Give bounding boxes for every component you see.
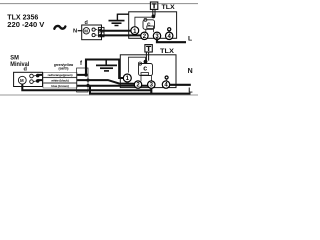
svg-text:L: L — [188, 36, 192, 43]
svg-text:220 -240 V: 220 -240 V — [7, 20, 44, 29]
svg-text:blue (brown): blue (brown) — [51, 84, 68, 88]
svg-text:red/orange(green): red/orange(green) — [48, 73, 73, 77]
svg-text:c: c — [143, 66, 147, 73]
svg-text:N: N — [73, 29, 77, 35]
svg-text:L: L — [188, 85, 193, 94]
svg-text:(earth): (earth) — [59, 66, 69, 70]
svg-text:white (black): white (black) — [50, 79, 69, 83]
svg-text:TLX: TLX — [162, 4, 176, 11]
svg-text:M: M — [20, 78, 24, 83]
svg-text:N: N — [188, 68, 193, 75]
svg-text:TLX: TLX — [160, 48, 175, 55]
svg-text:M: M — [84, 29, 88, 34]
svg-text:d: d — [24, 66, 28, 72]
